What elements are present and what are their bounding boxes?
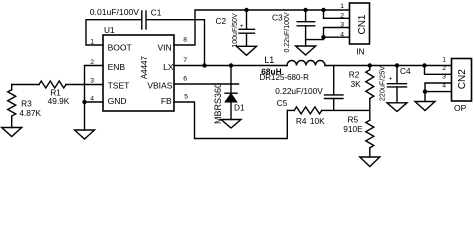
node C4-rail junction: [395, 63, 399, 67]
svg-text:GND: GND: [108, 96, 127, 106]
ground: [360, 157, 380, 167]
IC U1 A4447 buck regulator: [103, 35, 174, 111]
ground: [387, 103, 407, 112]
svg-text:CN1: CN1: [357, 14, 368, 34]
diode D1: [225, 66, 237, 120]
node D1-LX junction: [229, 63, 233, 67]
svg-text:220uF/25V: 220uF/25V: [378, 66, 387, 101]
svg-text:LX: LX: [163, 62, 174, 72]
wire: [425, 66, 452, 75]
svg-text:C3: C3: [272, 13, 283, 23]
svg-text:C1: C1: [151, 8, 162, 18]
svg-text:MBRS360: MBRS360: [213, 83, 223, 124]
svg-text:7: 7: [183, 57, 187, 64]
svg-text:C5: C5: [277, 98, 288, 108]
inductor L1: [287, 61, 325, 66]
node CN2 pin4 junction: [423, 89, 427, 93]
svg-text:C4: C4: [400, 66, 411, 76]
svg-text:3: 3: [442, 74, 446, 81]
svg-text:FB: FB: [161, 96, 172, 106]
ground: [296, 46, 316, 55]
svg-text:0.22uF/100V: 0.22uF/100V: [275, 86, 323, 96]
wire: [174, 83, 239, 85]
resistor R3: [8, 90, 16, 116]
svg-text:+: +: [389, 76, 393, 83]
svg-text:5: 5: [184, 94, 188, 101]
svg-text:R5: R5: [348, 115, 359, 125]
svg-text:OP: OP: [454, 103, 467, 113]
connector CN2: [452, 59, 472, 102]
svg-text:8: 8: [183, 37, 187, 44]
wire: [66, 84, 103, 86]
svg-text:DR125-680-R: DR125-680-R: [260, 73, 310, 82]
wire: [174, 10, 350, 45]
svg-text:A4447: A4447: [140, 55, 149, 79]
ground: [75, 130, 95, 139]
wire: [325, 65, 452, 67]
node GND junction: [82, 100, 86, 104]
svg-text:49.9K: 49.9K: [48, 96, 70, 106]
resistor R1: [39, 81, 66, 88]
svg-text:0.22uF/100V: 0.22uF/100V: [284, 12, 291, 52]
capacitor C3: [297, 10, 315, 46]
svg-text:1: 1: [442, 56, 446, 63]
svg-text:3: 3: [90, 78, 94, 85]
svg-text:3: 3: [340, 22, 344, 29]
resistor R2: [366, 66, 374, 111]
svg-text:TSET: TSET: [108, 80, 130, 90]
resistor R5: [366, 110, 374, 157]
wire: [12, 84, 39, 86]
svg-text:BOOT: BOOT: [108, 43, 132, 53]
ground: [415, 102, 435, 111]
node CN1 pin2 junction: [321, 8, 325, 12]
node LX-boot junction: [202, 63, 206, 67]
svg-text:L1: L1: [264, 55, 274, 65]
wire: [86, 20, 141, 45]
wire: [322, 109, 370, 111]
wire: [85, 101, 104, 103]
wire: [85, 66, 104, 131]
wire: [174, 65, 287, 67]
wire: [324, 10, 350, 18]
svg-text:D1: D1: [234, 103, 245, 113]
svg-text:2: 2: [442, 65, 446, 72]
svg-text:3K: 3K: [351, 79, 362, 89]
svg-text:4.87K: 4.87K: [19, 108, 41, 118]
svg-text:1: 1: [90, 39, 94, 46]
capacitor C5: [325, 66, 344, 111]
node R2-rail junction: [368, 63, 372, 67]
svg-text:100uF/50V: 100uF/50V: [232, 13, 239, 48]
wire: [425, 91, 452, 93]
svg-text:R4: R4: [296, 116, 307, 126]
wire: [425, 83, 452, 102]
svg-text:IN: IN: [356, 46, 365, 56]
connector CN1: [350, 3, 370, 44]
svg-text:VIN: VIN: [158, 43, 172, 53]
svg-text:2: 2: [90, 59, 94, 66]
svg-text:910E: 910E: [343, 124, 363, 134]
capacitor C2: [239, 10, 255, 46]
resistor R4: [294, 107, 322, 114]
svg-text:+: +: [240, 23, 244, 30]
node CN1 pin4 junction: [321, 35, 325, 39]
wire: [11, 85, 13, 90]
svg-text:1: 1: [340, 3, 344, 10]
capacitor C4: [388, 66, 407, 103]
wire: [174, 102, 294, 139]
ground: [2, 128, 22, 137]
node C2-rail junction: [244, 8, 248, 12]
svg-text:CN2: CN2: [457, 69, 468, 89]
svg-text:C2: C2: [216, 16, 227, 26]
svg-text:4: 4: [90, 96, 94, 103]
svg-text:VBIAS: VBIAS: [147, 80, 172, 90]
wire: [324, 36, 350, 38]
svg-text:0.01uF/100V: 0.01uF/100V: [90, 7, 139, 17]
wire: [147, 20, 205, 66]
svg-text:R2: R2: [349, 70, 360, 80]
node CN2 pin2 junction: [422, 63, 426, 67]
svg-text:6: 6: [183, 76, 187, 83]
wire: [306, 28, 350, 40]
ground: [221, 120, 241, 129]
svg-text:ENB: ENB: [108, 62, 126, 72]
svg-text:U1: U1: [104, 25, 115, 35]
wire: [11, 116, 13, 127]
svg-text:2: 2: [340, 12, 344, 19]
node C3-rail junction: [303, 8, 307, 12]
svg-text:10K: 10K: [310, 116, 325, 126]
svg-text:4: 4: [442, 82, 446, 89]
capacitor C1: [142, 11, 146, 29]
ground: [237, 46, 257, 55]
svg-text:4: 4: [340, 31, 344, 38]
